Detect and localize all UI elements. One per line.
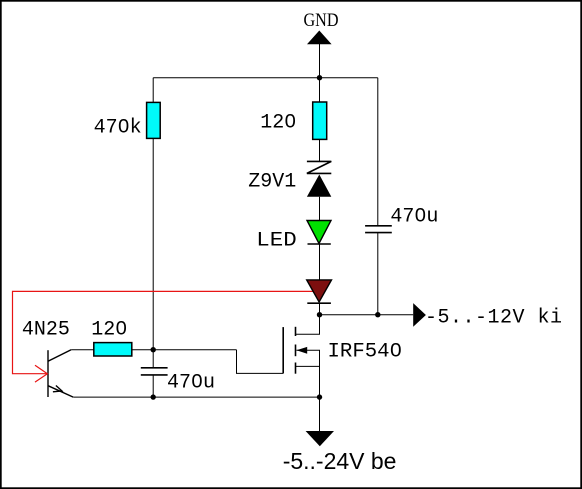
svg-text:-5..-24V be: -5..-24V be	[283, 448, 397, 474]
svg-text:LED: LED	[256, 229, 296, 252]
svg-text:470u: 470u	[390, 206, 438, 229]
svg-text:120: 120	[260, 112, 296, 135]
svg-text:-5..-12V ki: -5..-12V ki	[425, 307, 563, 330]
svg-text:GND: GND	[304, 11, 339, 31]
svg-text:Z9V1: Z9V1	[248, 170, 296, 193]
svg-text:470k: 470k	[94, 117, 142, 140]
svg-text:IRF540: IRF540	[328, 341, 403, 364]
svg-text:120: 120	[91, 318, 127, 341]
svg-text:4N25: 4N25	[22, 318, 70, 341]
svg-text:470u: 470u	[167, 371, 215, 394]
